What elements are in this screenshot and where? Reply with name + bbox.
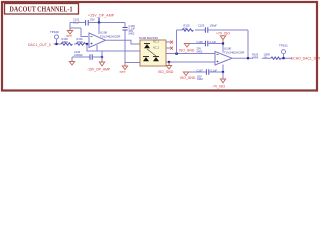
wire feedback vertical right <box>247 30 249 58</box>
wire gnd stub left <box>71 57 73 62</box>
wire to op-amp input <box>87 43 89 45</box>
svg-text:agnd: agnd <box>66 34 72 38</box>
svg-text:TP101: TP101 <box>279 44 288 48</box>
svg-text:0.1uF: 0.1uF <box>211 68 218 72</box>
wire between resistors <box>74 43 76 45</box>
title box <box>5 4 79 15</box>
testpoint TP101 <box>282 50 286 59</box>
svg-text:0402: 0402 <box>129 32 135 36</box>
resistor R101 <box>76 43 86 46</box>
feedback top wire <box>177 29 249 31</box>
wire +15V branch to C100 <box>124 23 126 28</box>
wire net +15V to cap <box>70 22 125 24</box>
resistor R101 labels <box>77 37 84 44</box>
svg-text:ECHO_DAC1_OUT: ECHO_DAC1_OUT <box>291 57 320 61</box>
svg-text:NC_1: NC_1 <box>153 41 160 44</box>
junction V- node <box>101 56 103 58</box>
ground arrow chain left <box>69 62 74 66</box>
svg-text:100pF: 100pF <box>210 24 218 28</box>
svg-text:-15V_OP_AMP: -15V_OP_AMP <box>87 67 111 71</box>
wire feedback down <box>87 44 140 51</box>
wire box to inverting input <box>166 53 215 55</box>
power arrow -7V_ISO <box>212 72 226 88</box>
diode D100B <box>143 57 149 62</box>
wire box bottom to non-inverting input <box>166 61 215 63</box>
diode array D100 label <box>139 36 158 40</box>
wire C100 down to box bottom <box>125 31 140 63</box>
svg-text:TLV2462ACDR: TLV2462ACDR <box>224 51 245 55</box>
junction feedback node <box>86 43 88 45</box>
wire to testpoint junction <box>262 57 292 59</box>
svg-text:+7V_ISO: +7V_ISO <box>216 32 230 36</box>
capacitor C106 labels <box>197 40 217 54</box>
power +7V_ISO <box>216 32 230 44</box>
C100 value labels <box>129 24 136 36</box>
diode array D100 box <box>140 40 166 66</box>
wire feedback vertical left <box>176 30 178 54</box>
wire output U100A <box>106 40 141 44</box>
ground ISO_GND arrow at C106 <box>179 44 195 53</box>
svg-text:TP100: TP100 <box>50 30 59 34</box>
wire V+ rail <box>187 44 223 53</box>
resistor R100 labels <box>62 37 69 44</box>
svg-text:-7V_ISO: -7V_ISO <box>212 84 225 88</box>
svg-text:agnd: agnd <box>120 69 126 73</box>
power +15V_OP_AMP <box>88 14 115 23</box>
resistor R103 labels <box>252 53 259 60</box>
svg-text:ISO_GND: ISO_GND <box>179 49 195 53</box>
capacitor C102 labels <box>74 50 83 57</box>
border frame <box>2 2 317 91</box>
junction output feedback <box>247 57 249 59</box>
wire op-amp V- down <box>96 45 98 51</box>
op-amp U100A labels <box>100 31 121 39</box>
svg-text:NC_2: NC_2 <box>153 47 160 50</box>
wire V- vertical <box>101 51 103 62</box>
testpoint TP101 label <box>279 44 288 48</box>
net label ECHO_DAC1_OUT <box>291 57 320 61</box>
svg-text:+15V_OP_AMP: +15V_OP_AMP <box>88 14 115 18</box>
svg-text:0.1uF: 0.1uF <box>210 40 217 44</box>
junction V+ <box>222 42 224 44</box>
internal connection <box>147 49 156 56</box>
pin NC_1 stub with no-connect X <box>166 41 173 44</box>
svg-text:1000pF: 1000pF <box>74 53 83 57</box>
capacitor C106 <box>205 41 207 46</box>
svg-text:C107: C107 <box>197 68 204 72</box>
op-amp U100A <box>89 33 106 48</box>
svg-text:25V: 25V <box>90 18 95 22</box>
op-amp U100B <box>215 52 232 66</box>
resistor R102 labels <box>184 24 191 31</box>
wire V- rail <box>186 65 223 73</box>
pin NC_2 stub with no-connect X <box>166 47 173 50</box>
wire output U100B <box>232 57 253 59</box>
svg-text:49R9: 49R9 <box>252 55 259 59</box>
svg-text:DAC1_OUT_0: DAC1_OUT_0 <box>28 43 51 47</box>
capacitor C107 <box>206 69 208 74</box>
svg-text:ISO_GND: ISO_GND <box>158 70 174 74</box>
junction TP101 <box>282 57 284 59</box>
resistor R100 <box>61 43 72 46</box>
capacitor C101 <box>86 20 89 26</box>
junction on +15V net <box>98 21 100 23</box>
ground ISO_GND arrow <box>158 62 174 74</box>
testpoint TP100 <box>55 35 59 44</box>
op-amp U100B labels <box>224 47 245 55</box>
pin label NC_1 <box>153 41 160 44</box>
svg-text:TLV2462ACDR: TLV2462ACDR <box>100 34 121 38</box>
resistor R104 <box>271 57 281 59</box>
wire cap left leg down <box>70 23 88 37</box>
pin label NC_2 <box>153 47 160 50</box>
svg-text:D100 BAV199: D100 BAV199 <box>139 36 158 40</box>
capacitor C102 <box>90 54 92 59</box>
ground agnd arrow left <box>66 28 73 38</box>
svg-text:C103: C103 <box>198 24 205 28</box>
ground ISO_GND arrow at C107 <box>180 72 196 80</box>
testpoint TP100 label <box>50 30 59 34</box>
net label DAC1_OUT_0 <box>28 43 51 47</box>
svg-text:ISO_GND: ISO_GND <box>180 76 196 80</box>
diode D100A <box>144 44 150 49</box>
resistor R104 labels <box>264 53 270 60</box>
resistor R102 <box>182 29 193 32</box>
svg-text:DACOUT CHANNEL-1: DACOUT CHANNEL-1 <box>10 6 73 14</box>
capacitor C100 <box>122 28 127 31</box>
capacitor C101 labels <box>73 18 95 25</box>
junction ISO_GND <box>168 61 170 63</box>
junction TP100 <box>55 43 57 45</box>
capacitor C103 <box>205 27 207 32</box>
svg-text:C106: C106 <box>197 40 204 44</box>
wire input signal <box>54 43 62 45</box>
diode D100C <box>153 57 159 62</box>
capacitor C107 labels <box>197 68 218 81</box>
svg-text:0402: 0402 <box>197 49 203 53</box>
wire V+ pin op-amp U100A <box>98 23 100 35</box>
svg-text:0402: 0402 <box>197 77 203 81</box>
power arrow -15V <box>87 62 111 71</box>
wire cap chain y57 <box>72 56 102 58</box>
ground agnd arrow under C100 <box>120 63 128 74</box>
capacitor C103 labels <box>198 24 217 28</box>
junction feedback left <box>175 52 177 54</box>
junction V- <box>222 71 224 73</box>
